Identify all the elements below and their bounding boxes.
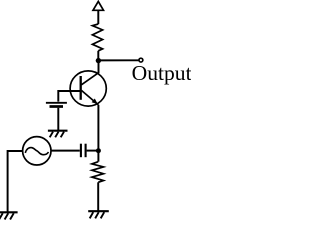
capacitor C1 (input coupling) [81, 144, 86, 158]
svg-text:Output: Output [132, 61, 191, 85]
node emitter junction (dot) [96, 148, 101, 153]
wire R2 to ground [97, 182, 99, 210]
wire C1 to emitter node [87, 150, 97, 152]
wire R1 to collector node [97, 51, 99, 61]
source V1 (sine wave source) [23, 137, 51, 165]
wire collector node to output terminal [98, 59, 138, 61]
wire collector node down to transistor collector [98, 61, 100, 74]
ground (emitter resistor) [88, 211, 109, 218]
node collector junction (dot) [96, 58, 101, 63]
battery B1 (base bias cell) [46, 103, 67, 107]
power supply symbol VCC (open triangle) [93, 1, 104, 10]
ground (source) [0, 212, 18, 219]
transistor Q1 (NPN, common-base) [70, 71, 106, 106]
resistor R2 (emitter resistor) [92, 162, 104, 183]
wire VCC to R1 [97, 11, 99, 24]
ground (base bias) [48, 131, 68, 138]
wire battery to ground [57, 108, 59, 130]
wire source to C1 [51, 150, 80, 152]
wire emitter to emitter node [97, 105, 99, 162]
resistor R1 (collector load) [92, 24, 102, 51]
wire source to ground rail [8, 151, 23, 212]
wire base to battery corner [58, 91, 80, 102]
output terminal (open circle pin) [139, 58, 143, 62]
